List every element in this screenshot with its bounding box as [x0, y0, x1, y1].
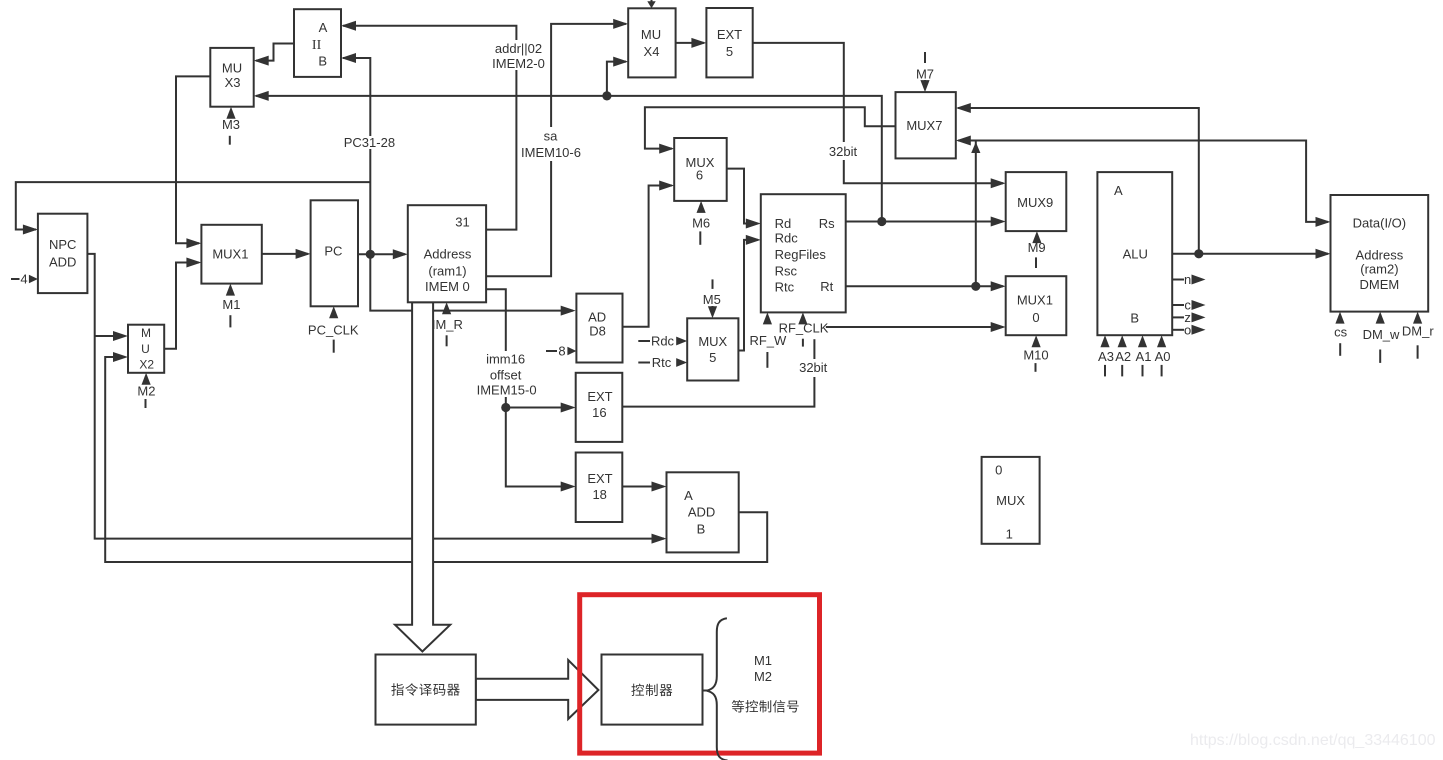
svg-text:imm16: imm16	[486, 352, 525, 367]
svg-text:A: A	[319, 20, 328, 35]
controller box	[602, 655, 703, 725]
svg-text:MUX1: MUX1	[212, 246, 248, 261]
svg-text:M9: M9	[1028, 240, 1046, 255]
wire sa IMEM10-6 from IMEM to MUX4 upper input	[486, 19, 628, 276]
svg-text:B: B	[318, 53, 327, 68]
node M1 control	[222, 284, 240, 328]
svg-text:cs: cs	[1334, 325, 1348, 340]
wire MUX5 output to RegFiles Rdc input	[738, 235, 760, 351]
svg-text:M1: M1	[222, 297, 240, 312]
svg-text:X3: X3	[225, 75, 241, 90]
mux MUX10	[1006, 276, 1067, 335]
node M3 control	[222, 107, 240, 145]
svg-text:Rtc: Rtc	[775, 280, 795, 295]
node PC_CLK control	[308, 306, 359, 352]
svg-text:PC_CLK: PC_CLK	[308, 322, 359, 337]
svg-text:o: o	[1184, 322, 1191, 337]
wire ADD8 output to MUX6 lower input	[623, 181, 675, 327]
extender EXT18	[576, 453, 623, 523]
svg-text:16: 16	[592, 405, 606, 420]
node M2 control	[137, 373, 155, 408]
node ALU flag z	[1172, 310, 1205, 325]
svg-text:MUX9: MUX9	[1017, 195, 1053, 210]
svg-text:PC: PC	[324, 244, 342, 259]
mux MUX5	[687, 318, 738, 380]
node brace for control signals	[707, 618, 728, 760]
wire RegFiles Rt output to MUX10 upper input	[846, 281, 1006, 291]
node label 32bit (EXT5 output)	[829, 144, 858, 159]
wire PC output to IMEM address input	[358, 249, 408, 259]
svg-text:MUX1: MUX1	[1017, 293, 1053, 308]
node IM_R control	[432, 302, 463, 346]
wire PC31-28 vertical from PC output to AIIB input B	[341, 53, 370, 254]
wire Rt branch up to MUX7/DMEM line	[971, 141, 980, 287]
svg-text:8: 8	[558, 344, 565, 359]
node A2 control into ALU	[1115, 335, 1131, 376]
svg-text:MUX: MUX	[996, 493, 1025, 508]
svg-text:IMEM15-0: IMEM15-0	[477, 383, 537, 398]
svg-text:PC31-28: PC31-28	[344, 135, 395, 150]
node label imm16 offset IMEM15-0	[477, 352, 537, 398]
node red highlight rectangle around controller	[580, 595, 820, 753]
node Rdc stub into MUX5	[638, 334, 687, 349]
svg-text:A: A	[684, 488, 693, 503]
svg-text:EXT: EXT	[717, 27, 742, 42]
svg-text:DMEM: DMEM	[1360, 277, 1400, 292]
node ALU flag o	[1172, 322, 1205, 337]
svg-text:6: 6	[696, 167, 703, 182]
svg-text:X4: X4	[644, 44, 660, 59]
memory IMEM instruction ram1	[408, 205, 486, 302]
svg-text:D8: D8	[589, 324, 606, 339]
wire AIIB output to MUX3 upper input	[254, 44, 294, 66]
wire controller output to brace	[703, 690, 708, 692]
mux MUX9	[1006, 172, 1067, 231]
node A1 control into ALU	[1136, 335, 1152, 376]
wire imm16 offset IMEM15-0 from IMEM to EXT16 and EXT18	[486, 289, 576, 491]
svg-text:(ram2): (ram2)	[1360, 261, 1398, 276]
svg-text:Address: Address	[424, 246, 472, 261]
node 8 constant into ADD8	[546, 344, 576, 359]
svg-text:IM_R: IM_R	[432, 317, 463, 332]
svg-text:addr||02: addr||02	[495, 41, 542, 56]
svg-text:DM_w: DM_w	[1363, 327, 1400, 342]
svg-text:ALU: ALU	[1123, 246, 1148, 261]
svg-text:NPC: NPC	[49, 237, 76, 252]
wire branch from Rs bus to MUX4 lower input	[602, 57, 628, 101]
wire MUX3 output to MUX1 upper input	[176, 76, 210, 248]
svg-text:IMEM 0: IMEM 0	[425, 279, 470, 294]
op-amp AIIB jump-address combiner	[294, 9, 341, 77]
mux MUX4	[628, 8, 675, 77]
wire PC node down to ADD8 input	[370, 254, 575, 315]
svg-text:M6: M6	[692, 216, 710, 231]
svg-text:Address: Address	[1356, 247, 1404, 262]
register PC	[311, 200, 358, 306]
svg-text:M: M	[141, 326, 151, 340]
node ALU flag c	[1172, 298, 1205, 313]
svg-text:sa: sa	[544, 129, 559, 144]
svg-text:EXT: EXT	[587, 471, 612, 486]
wire MUX4 output to EXT5	[676, 38, 707, 48]
svg-text:Rdc: Rdc	[775, 231, 799, 246]
adder ADD B branch target	[667, 472, 739, 552]
adder NPC ADD	[38, 214, 88, 293]
mux legend 0 MUX 1	[982, 457, 1040, 544]
svg-text:A: A	[1114, 183, 1123, 198]
wire MUX6 output to RegFiles Rd input	[727, 169, 761, 229]
svg-text:32bit: 32bit	[829, 144, 858, 159]
memory DMEM data ram2	[1331, 195, 1429, 312]
mux MUX2	[128, 325, 164, 373]
node label sa IMEM10-6	[521, 129, 581, 161]
node label 32bit (EXT16 output)	[799, 360, 828, 375]
svg-text:Rsc: Rsc	[775, 263, 798, 278]
svg-text:MU: MU	[641, 27, 661, 42]
svg-text:0: 0	[995, 463, 1002, 478]
svg-text:II: II	[312, 38, 322, 53]
mux MUX6	[674, 138, 727, 201]
wire NPC ADD output to ADD B lower input and MUX2 upper input	[87, 254, 666, 544]
svg-text:M5: M5	[703, 292, 721, 307]
svg-text:Rt: Rt	[820, 279, 833, 294]
svg-text:ADD: ADD	[688, 504, 715, 519]
wire MUX7 output to MUX6 upper input	[645, 107, 896, 153]
svg-text:5: 5	[709, 350, 716, 365]
svg-text:A1: A1	[1136, 349, 1152, 364]
extender EXT16	[576, 373, 623, 442]
svg-text:n: n	[1184, 272, 1191, 287]
svg-text:Data(I/O): Data(I/O)	[1353, 216, 1406, 231]
svg-text:Rs: Rs	[819, 216, 835, 231]
svg-text:B: B	[697, 521, 706, 536]
svg-text:1: 1	[1006, 527, 1013, 542]
svg-text:U: U	[141, 342, 150, 356]
svg-text:M3: M3	[222, 117, 240, 132]
svg-text:X2: X2	[139, 358, 154, 372]
wire EXT16 output up to 32bit line	[622, 339, 814, 406]
wire NPC feedback from PC node to NPC ADD input	[16, 182, 371, 234]
node RF_W control	[749, 312, 787, 367]
mux MUX3	[210, 48, 253, 107]
node RF_CLK control	[779, 312, 829, 346]
wire EXT18 output to ADD B upper input	[622, 482, 666, 492]
svg-text:A0: A0	[1155, 349, 1171, 364]
svg-text:Rd: Rd	[775, 216, 792, 231]
wire M4 control stub into MUX4 top	[647, 0, 655, 8]
svg-text:M7: M7	[916, 67, 934, 82]
node M6 control	[692, 201, 710, 245]
alu ALU	[1097, 172, 1172, 335]
svg-text:(ram1): (ram1)	[428, 263, 466, 278]
wire MUX2 output to MUX1 lower input	[164, 258, 201, 349]
svg-text:4: 4	[20, 272, 27, 287]
wire MUX1 output to PC	[262, 249, 311, 259]
node M5 control into MUX5 top	[703, 279, 721, 318]
svg-text:31: 31	[455, 215, 469, 230]
svg-text:MUX7: MUX7	[906, 118, 942, 133]
svg-text:https://blog.csdn.net/qq_33446: https://blog.csdn.net/qq_33446100	[1190, 732, 1436, 749]
svg-text:M1: M1	[754, 653, 772, 668]
node Rtc stub into MUX5	[638, 355, 687, 370]
svg-text:Rtc: Rtc	[652, 355, 672, 370]
svg-text:18: 18	[592, 487, 606, 502]
extender EXT5	[706, 8, 752, 77]
svg-text:DM_r: DM_r	[1402, 324, 1434, 339]
svg-text:A2: A2	[1115, 349, 1131, 364]
wire ALU output to DMEM address input	[1172, 249, 1330, 259]
svg-text:M2: M2	[137, 383, 155, 398]
node A0 control into ALU	[1155, 335, 1171, 376]
svg-text:M2: M2	[754, 669, 772, 684]
node M9 control	[1028, 231, 1046, 268]
mux MUX7	[896, 92, 956, 158]
node DM_r control	[1402, 312, 1434, 359]
svg-text:IMEM10-6: IMEM10-6	[521, 145, 581, 160]
svg-text:EXT: EXT	[587, 389, 612, 404]
adder ADD8	[576, 294, 622, 363]
svg-text:MUX: MUX	[698, 334, 727, 349]
node M7 control into MUX7 top	[916, 52, 934, 92]
node label addr||02 IMEM2-0	[492, 41, 545, 71]
wire hollow arrow decoder to controller	[476, 660, 599, 719]
svg-text:B: B	[1130, 310, 1139, 325]
node cs control	[1334, 312, 1348, 356]
node label PC31-28	[344, 135, 395, 150]
node label M1 M2 control signal list	[754, 653, 772, 684]
wire ADD B output loop back to MUX2 lower input	[105, 352, 767, 562]
wire Rt line into MUX7 lower input and to DMEM data input	[956, 136, 1331, 227]
mux MUX1	[201, 225, 261, 284]
svg-text:RegFiles: RegFiles	[775, 247, 827, 262]
node ALU flag n	[1172, 272, 1205, 287]
svg-text:0: 0	[1032, 310, 1039, 325]
svg-text:MU: MU	[222, 61, 242, 76]
register-file RegFiles	[761, 194, 846, 312]
node M10 control	[1023, 335, 1048, 372]
node label control signals text	[732, 700, 799, 713]
wire addr||02 from IMEM to AIIB input A	[341, 21, 516, 230]
svg-text:32bit: 32bit	[799, 360, 828, 375]
wire instruction bus big hollow arrow from IMEM down to decoder	[395, 302, 450, 651]
svg-text:RF_CLK: RF_CLK	[779, 321, 829, 336]
node -4 constant into NPC ADD	[11, 272, 38, 287]
svg-text:A3: A3	[1098, 349, 1114, 364]
svg-text:offset: offset	[490, 367, 522, 382]
svg-text:ADD: ADD	[49, 254, 76, 269]
node DM_w control	[1363, 312, 1400, 363]
svg-text:M10: M10	[1023, 348, 1048, 363]
wire EXT5 output (32bit) to MUX9 upper input	[753, 43, 1006, 188]
svg-text:5: 5	[726, 44, 733, 59]
node A3 control into ALU	[1098, 335, 1114, 376]
wire ALU output feedback to MUX7 upper input	[956, 103, 1199, 254]
wire Rs bus: RegFiles Rs output to MUX9 lower input, up and left to MUX3 lower input	[254, 91, 1006, 227]
svg-text:Rdc: Rdc	[651, 334, 675, 349]
svg-text:AD: AD	[588, 310, 606, 325]
decoder instruction decoder box	[376, 655, 476, 725]
wire 32bit line to MUX10 lower input	[826, 322, 1006, 332]
svg-text:IMEM2-0: IMEM2-0	[492, 56, 545, 71]
